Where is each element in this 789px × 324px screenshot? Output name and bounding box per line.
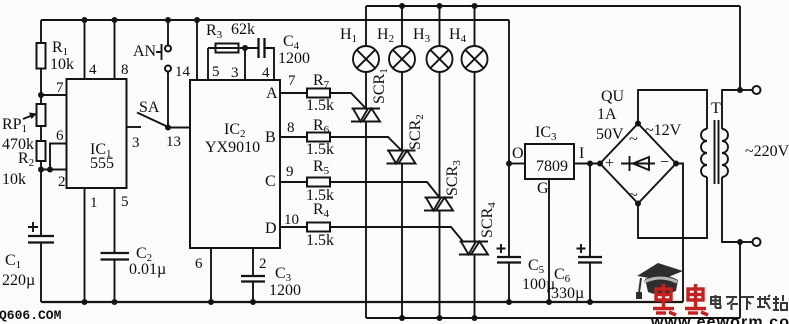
svg-text:YX9010: YX9010 — [205, 139, 260, 156]
svg-text:6: 6 — [195, 256, 203, 272]
diode inside bridge — [621, 156, 655, 171]
wire: AN top lead from bus — [167, 20, 169, 46]
transformer T 12V winding — [701, 129, 707, 177]
wire: SCR1 cathode down — [365, 122, 367, 319]
node: junction R1/RP1/pin7 — [38, 92, 44, 98]
svg-text:10: 10 — [284, 212, 299, 228]
wire: bridge AC bottom to 12V winding — [638, 177, 707, 238]
wire: H1 to SCR1 — [365, 72, 367, 109]
node: C2/ground — [112, 299, 118, 305]
wire: H1 top lead — [365, 6, 367, 46]
svg-text:QU: QU — [601, 88, 625, 105]
thyristor SCR2 — [387, 151, 417, 164]
terminal: AC input top — [753, 86, 761, 94]
svg-text:~12V: ~12V — [645, 122, 682, 139]
wire: top bus down to AC terminal — [739, 6, 741, 90]
node: AC bottom terminal junction — [737, 239, 743, 245]
wire: bridge AC top to 12V winding — [638, 90, 707, 129]
resistor R4 — [307, 223, 330, 232]
svg-text:R3: R3 — [206, 22, 223, 41]
watermark: graduation cap logo — [636, 263, 683, 299]
svg-text:3: 3 — [231, 65, 239, 81]
wire: R2 bottom stub — [40, 161, 42, 170]
svg-text:8: 8 — [121, 62, 129, 78]
svg-text:1200: 1200 — [278, 50, 310, 67]
wire: lamp top bus — [366, 5, 740, 7]
wire: C6 top lead — [589, 164, 591, 258]
wire: IC2 pin 3 stub — [244, 48, 246, 80]
svg-text:5: 5 — [212, 64, 220, 80]
wire: C2 to ground — [114, 260, 116, 303]
wire: 9V rail down from bus — [508, 20, 510, 257]
svg-text:SA: SA — [139, 99, 160, 116]
node: O node junction — [506, 161, 512, 167]
svg-text:2: 2 — [259, 256, 267, 272]
node: pin14/bus — [194, 17, 200, 23]
svg-text:IC2: IC2 — [224, 121, 246, 140]
lamp H1 — [353, 46, 379, 72]
svg-text:O: O — [512, 145, 524, 162]
wire: AN bottom lead to node 13 — [167, 72, 169, 128]
svg-text:4: 4 — [262, 65, 270, 81]
wire: AC bottom terminal lead — [740, 241, 753, 243]
resistor R6 — [307, 133, 330, 142]
wire: IC1 pin 1 to ground — [84, 188, 86, 302]
svg-text:7: 7 — [288, 73, 296, 89]
svg-text:H4: H4 — [449, 26, 467, 45]
wire: ground bus — [41, 301, 683, 303]
wire: pin 8 lead — [280, 136, 307, 138]
wire: H3 top lead — [439, 6, 441, 46]
wire: node 13 to IC2 pin 13 — [168, 127, 190, 129]
op-amp IC1 555 timer — [67, 79, 127, 188]
svg-text:1: 1 — [90, 195, 98, 211]
node: C6/ground — [587, 299, 593, 305]
svg-text:4: 4 — [89, 62, 97, 78]
wire: H3 to SCR3 — [439, 72, 441, 198]
node: G/ground — [546, 299, 552, 305]
svg-text:1.5k: 1.5k — [306, 97, 334, 114]
capacitor C1 — [28, 235, 54, 237]
regulator IC3 7809 — [525, 144, 574, 179]
svg-text:7809: 7809 — [536, 158, 568, 175]
wire: C5 to ground — [508, 263, 510, 303]
wire: IC1 pin 4 — [84, 20, 86, 79]
wire: +9V top bus — [41, 19, 509, 21]
resistor R7 — [307, 89, 330, 98]
node: bridge left vertex — [597, 161, 603, 167]
svg-text:SCR2: SCR2 — [407, 114, 426, 150]
thyristor SCR3 — [424, 198, 454, 211]
watermark: dianzi xiazaizhan characters — [711, 295, 787, 310]
svg-text:1.5k: 1.5k — [306, 141, 334, 158]
svg-text:10k: 10k — [50, 56, 74, 73]
wire: IC1 pin 3 stub — [127, 126, 142, 128]
wire: pin 6 bracket — [50, 144, 67, 170]
node: junction C1/pin2 — [38, 167, 44, 173]
node: C5/ground — [506, 299, 512, 305]
node: pin1/ground — [82, 299, 88, 305]
svg-text:R7: R7 — [313, 72, 330, 91]
node: SCR4/cathode bus — [472, 315, 478, 321]
capacitor C5 — [497, 256, 521, 258]
node: H2 top — [399, 3, 405, 9]
svg-text:C6: C6 — [554, 266, 571, 285]
svg-text:IC3: IC3 — [535, 124, 557, 143]
node: C3/ground — [250, 299, 256, 305]
lamp H2 — [389, 46, 415, 72]
svg-text:50V: 50V — [596, 126, 624, 143]
wire: pin 9 lead — [280, 181, 307, 183]
node: bridge right vertex — [673, 161, 679, 167]
svg-text:C: C — [265, 173, 276, 190]
wire: IC2 pin 6 to ground — [210, 248, 212, 302]
wire: AC terminal to SCR cathode bus — [739, 242, 741, 318]
potentiometer RP1 — [37, 104, 46, 126]
svg-text:T: T — [711, 100, 721, 117]
wire: R6 to SCR2 gate — [330, 137, 402, 151]
wire: C6 to ground — [589, 263, 591, 303]
svg-text:C1: C1 — [5, 252, 21, 271]
node: pin8/bus — [112, 17, 118, 23]
svg-text:www.eeworm.com: www.eeworm.com — [650, 314, 789, 324]
wire: IC2 pin 2 lead — [252, 248, 254, 276]
capacitor C4 — [257, 38, 259, 58]
wire: top loop left segment — [208, 47, 259, 49]
svg-text:AN: AN — [133, 43, 157, 60]
svg-text:Q606.COM: Q606.COM — [0, 308, 62, 323]
svg-text:SCR1: SCR1 — [371, 68, 390, 104]
svg-text:1.5k: 1.5k — [306, 232, 334, 249]
thyristor SCR4 — [459, 242, 489, 255]
wire: node to IC1 pin 7 — [41, 94, 67, 96]
svg-text:1200: 1200 — [269, 282, 301, 299]
wire: R1 top lead — [40, 20, 42, 43]
node: pin4/bus — [82, 17, 88, 23]
wire: pin 7 lead — [280, 92, 307, 94]
lamp H4 — [462, 46, 488, 72]
svg-text:2: 2 — [58, 174, 66, 190]
wire: AC top terminal lead — [740, 89, 753, 91]
svg-text:C5: C5 — [528, 257, 545, 276]
svg-text:B: B — [265, 129, 276, 146]
svg-text:9: 9 — [286, 164, 294, 180]
svg-text:−: − — [660, 154, 669, 171]
svg-text:~220V: ~220V — [745, 143, 789, 160]
wire: SCR3 cathode down — [439, 211, 441, 319]
terminal: AC input bottom — [753, 238, 761, 246]
svg-text:D: D — [265, 220, 277, 237]
wire: SCR2 cathode down — [401, 164, 403, 319]
node: SCR3/cathode bus — [437, 315, 443, 321]
capacitor C6 — [578, 256, 602, 258]
wire: RP1 to R2 — [40, 126, 42, 141]
svg-text:0.01µ: 0.01µ — [129, 261, 166, 278]
node: H3 top — [437, 3, 443, 9]
svg-text:8: 8 — [287, 120, 295, 136]
wire: IC1 pin 8 — [114, 20, 116, 79]
wire: 220V winding bottom lead — [722, 177, 740, 242]
rectifier bridge QU — [600, 124, 676, 204]
node: H4 top — [472, 3, 478, 9]
switch SA blade — [137, 113, 166, 127]
transformer T 220V winding — [722, 129, 728, 177]
svg-text:14: 14 — [175, 64, 191, 80]
wire: IC3 I pin — [574, 163, 600, 165]
svg-text:13: 13 — [166, 134, 181, 150]
svg-text:10k: 10k — [2, 171, 26, 188]
svg-text:H2: H2 — [377, 26, 394, 45]
svg-text:1A: 1A — [597, 106, 617, 123]
svg-text:G: G — [537, 180, 549, 197]
svg-text:220µ: 220µ — [2, 272, 35, 289]
svg-text:62k: 62k — [231, 21, 255, 38]
resistor R2 — [37, 141, 46, 161]
node: C6/I wire — [587, 161, 593, 167]
svg-text:6: 6 — [56, 128, 64, 144]
wire: R7 to SCR1 gate — [330, 93, 366, 109]
wire: IC3 O pin — [509, 163, 525, 165]
svg-text:R5: R5 — [313, 158, 330, 177]
node: AC top terminal junction — [737, 87, 743, 93]
wire: C1 bottom lead — [40, 243, 42, 303]
capacitor C2 — [101, 252, 130, 254]
node: junction pin6 bracket — [47, 167, 53, 173]
pushbutton AN — [165, 46, 171, 52]
resistor R3 — [216, 44, 239, 53]
node: pin6/ground — [208, 299, 214, 305]
wire: R4 to SCR4 gate — [330, 227, 463, 242]
node: R3/C4/pin3 junction — [242, 45, 248, 51]
node: AN/bus — [165, 17, 171, 23]
svg-text:SCR4: SCR4 — [479, 202, 498, 238]
node: bridge bottom vertex — [635, 201, 641, 207]
transformer core — [714, 120, 716, 184]
lamp H3 — [427, 46, 453, 72]
wire: H4 top lead — [474, 6, 476, 46]
svg-text:3: 3 — [132, 135, 140, 151]
wire: 220V winding top lead — [722, 90, 740, 129]
node: SCR2/cathode bus — [399, 315, 405, 321]
svg-text:5: 5 — [121, 194, 129, 210]
wire: C4 to pin 4 — [265, 48, 275, 80]
wire: H2 to SCR2 — [401, 72, 403, 151]
wire: RP1 top stub — [40, 95, 42, 104]
wire: C1 top lead — [40, 170, 42, 237]
wire: bridge minus to ground — [676, 164, 683, 303]
svg-text:330µ: 330µ — [551, 285, 584, 302]
capacitor C3 — [241, 275, 265, 277]
svg-text:7: 7 — [56, 80, 64, 96]
wire: SCR4 cathode down — [474, 255, 476, 319]
wire: R5 to SCR3 gate — [330, 182, 440, 198]
wire: IC2 pin 5 stub up — [207, 48, 209, 80]
resistor R1 — [37, 43, 46, 69]
wire: pin 10 lead — [280, 226, 307, 228]
svg-text:I: I — [579, 145, 584, 162]
svg-text:555: 555 — [90, 155, 114, 172]
resistor R5 — [307, 178, 330, 187]
wire: IC1 pin 5 lead — [114, 188, 116, 253]
svg-text:H1: H1 — [340, 26, 357, 45]
wire: IC2 pin 14 from bus — [196, 20, 198, 80]
wire: R1 bottom lead to node 7 — [40, 69, 42, 96]
wire: H4 to SCR4 — [474, 72, 476, 242]
wire: SCR cathode bus — [366, 317, 740, 319]
svg-text:R6: R6 — [313, 117, 330, 136]
svg-text:SCR3: SCR3 — [444, 160, 463, 196]
node: node 13 junction — [165, 125, 171, 131]
svg-text:~: ~ — [629, 131, 638, 148]
svg-text:H3: H3 — [413, 26, 431, 45]
wire: IC3 G pin to ground — [548, 179, 550, 302]
wire: node 2/6 horizontal to IC1 pin 2 — [41, 169, 67, 171]
wire: C3 to ground — [252, 282, 254, 303]
watermark: chongchong red characters — [653, 284, 708, 315]
svg-text:+: + — [605, 155, 614, 172]
node: bridge top vertex — [635, 121, 641, 127]
thyristor SCR1 — [351, 109, 381, 122]
svg-text:A: A — [266, 85, 278, 102]
wire: H2 top lead — [401, 6, 403, 46]
op-amp IC2 YX9010 — [190, 80, 280, 248]
